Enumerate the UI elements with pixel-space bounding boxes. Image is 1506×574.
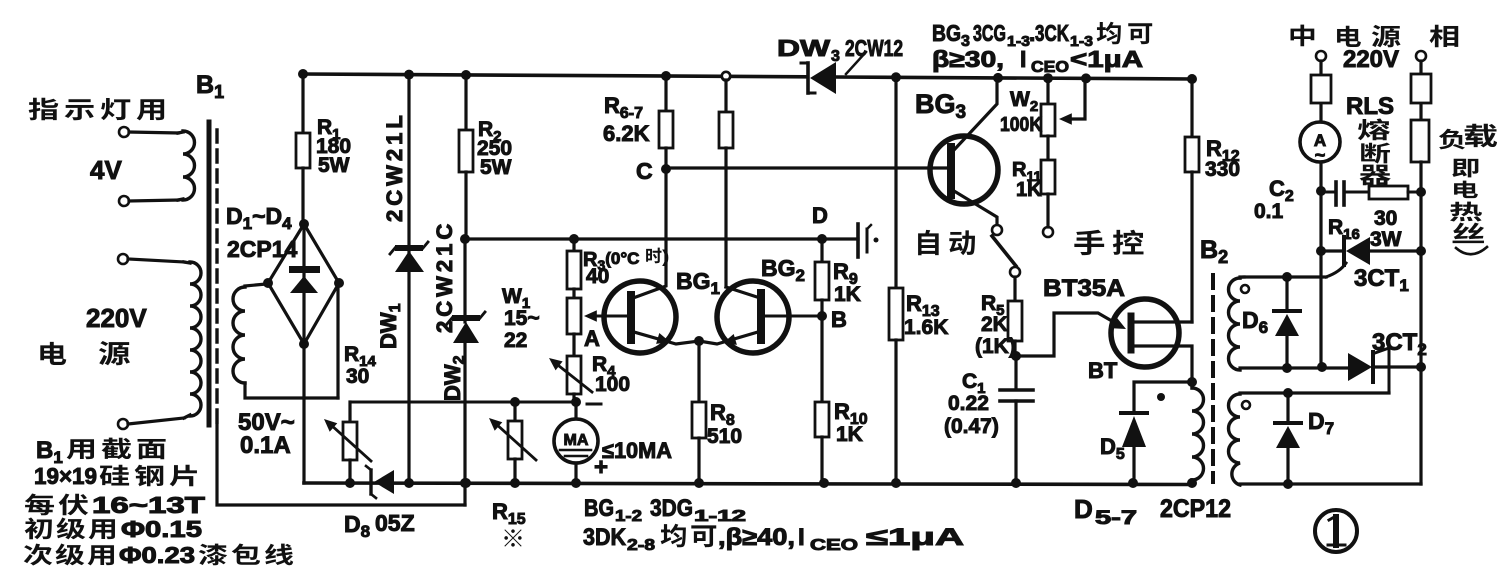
node bridge left xyxy=(263,278,273,288)
svg-text:C: C xyxy=(636,158,653,184)
wire BT cathode xyxy=(1133,346,1192,382)
svg-text:100K: 100K xyxy=(1000,114,1042,136)
label 负载即电热丝 xyxy=(1439,129,1465,150)
svg-text:BT: BT xyxy=(1088,358,1118,383)
label 相 xyxy=(1430,25,1459,48)
svg-text:2CP12: 2CP12 xyxy=(1160,495,1231,523)
svg-text:30: 30 xyxy=(346,365,369,388)
core B1 (dashed) xyxy=(215,130,218,425)
svg-text:Φ0.23: Φ0.23 xyxy=(119,542,195,568)
junction xyxy=(1316,186,1326,196)
switch pole xyxy=(1010,267,1020,277)
svg-text:0.22: 0.22 xyxy=(948,392,989,415)
gate 3CT2 xyxy=(1375,348,1389,353)
label 自动 xyxy=(918,230,939,255)
junction xyxy=(1011,478,1021,488)
svg-text:<1μA: <1μA xyxy=(1070,46,1143,72)
svg-text:3CG: 3CG xyxy=(973,20,1006,46)
svg-text:≤10MA: ≤10MA xyxy=(602,438,672,463)
junction xyxy=(298,69,308,79)
svg-text:30: 30 xyxy=(1374,207,1397,230)
terminal 4V winding bottom xyxy=(119,196,129,206)
wire BG1 emitter xyxy=(634,332,699,344)
wire sec1 bottom xyxy=(1240,366,1348,369)
wire BG2 emitter xyxy=(699,332,758,344)
diode D7 xyxy=(1286,393,1289,423)
svg-text:330: 330 xyxy=(1205,158,1240,181)
svg-text:RLS: RLS xyxy=(1346,93,1394,120)
svg-text:(1K): (1K) xyxy=(975,335,1016,358)
node C xyxy=(661,164,671,174)
minus mark xyxy=(587,403,601,406)
label 手控 xyxy=(1074,230,1104,255)
svg-text:6.2K: 6.2K xyxy=(603,121,650,146)
junction xyxy=(510,397,520,407)
svg-text:2CW21C: 2CW21C xyxy=(432,220,457,333)
resistor R14 (variable) xyxy=(348,402,351,422)
meter MA xyxy=(574,402,577,419)
thyristor 3CT1 xyxy=(1321,249,1344,252)
junction xyxy=(993,73,1003,83)
junction xyxy=(1043,73,1053,83)
junction xyxy=(510,478,520,488)
resistor R6 xyxy=(664,76,667,111)
junction xyxy=(1283,388,1293,398)
wire to BT gate xyxy=(1016,313,1117,356)
junction xyxy=(1316,246,1326,256)
svg-text:1-2: 1-2 xyxy=(615,508,642,525)
winding B1 220V primary xyxy=(190,262,201,416)
wiper W2 xyxy=(1072,76,1085,119)
node bridge top xyxy=(299,219,309,229)
junction xyxy=(345,478,355,488)
terminal 220V winding bottom xyxy=(118,419,128,429)
zener DW1 xyxy=(407,76,410,483)
leader line xyxy=(846,52,866,74)
winding B2 primary xyxy=(1190,382,1193,388)
thyristor 3CT2 xyxy=(1348,353,1372,381)
junction xyxy=(1416,362,1426,372)
wire sec2 bottom xyxy=(1240,482,1421,485)
wire return line y505 xyxy=(217,425,465,505)
svg-text:5W: 5W xyxy=(480,156,512,179)
core B2 (dashed) xyxy=(1211,275,1215,482)
svg-text:22: 22 xyxy=(504,329,527,352)
junction node R2/DW2 xyxy=(460,234,470,244)
svg-text:100: 100 xyxy=(595,373,630,396)
polarity dot sec2 xyxy=(1242,401,1250,409)
resistor R16 30 3W xyxy=(1344,191,1369,194)
node bridge right xyxy=(334,278,344,288)
svg-text:2CW12: 2CW12 xyxy=(845,35,903,61)
svg-text:220V: 220V xyxy=(1343,46,1399,73)
resistor R2 xyxy=(464,76,467,130)
svg-text:3: 3 xyxy=(831,48,840,65)
svg-text:(0.47): (0.47) xyxy=(944,415,999,438)
label 电源 (mains) xyxy=(40,342,66,365)
svg-text:3DG: 3DG xyxy=(650,495,693,522)
svg-text:MA: MA xyxy=(564,432,589,449)
resistor R11 xyxy=(1041,160,1055,194)
capacitor C1 xyxy=(1014,356,1017,388)
svg-text:0.1A: 0.1A xyxy=(240,432,291,459)
svg-text:1-12: 1-12 xyxy=(694,508,746,525)
capacitor at D xyxy=(856,224,860,257)
junction xyxy=(569,234,579,244)
svg-text:CEO: CEO xyxy=(810,537,858,554)
wire xyxy=(336,285,339,398)
svg-text:0.1: 0.1 xyxy=(1254,200,1284,223)
wire C line xyxy=(666,166,949,169)
wiper arrow W1 / node A xyxy=(596,315,627,318)
winding B2 secondary 1 xyxy=(1229,278,1241,370)
svg-text:5-7: 5-7 xyxy=(1095,508,1137,529)
wire xyxy=(129,200,178,201)
junction xyxy=(1187,478,1197,488)
svg-text:1.6K: 1.6K xyxy=(904,316,948,339)
wire xyxy=(245,383,338,398)
fuse RLS left xyxy=(1319,61,1322,122)
svg-text:15~: 15~ xyxy=(504,307,540,330)
gate 3CT1 xyxy=(1326,263,1346,277)
junction xyxy=(1282,363,1292,373)
wire xyxy=(128,418,184,424)
svg-text:1K: 1K xyxy=(836,423,863,446)
junction xyxy=(891,478,901,488)
transistor BG3 xyxy=(930,136,998,204)
terminal neutral xyxy=(1316,51,1326,61)
label 中 xyxy=(1291,25,1315,47)
label 电源 xyxy=(1337,26,1361,47)
resistor R3 (thermistor) xyxy=(572,239,575,251)
svg-text:3CK: 3CK xyxy=(1035,20,1069,46)
resistor R4 (variable) xyxy=(567,356,581,394)
transistor BG1 xyxy=(604,281,676,353)
junction xyxy=(1283,479,1293,489)
junction xyxy=(1416,187,1426,197)
wire bridge output down xyxy=(302,344,305,483)
svg-text:B: B xyxy=(831,307,847,332)
wire D reference line xyxy=(465,237,858,240)
winding B1 50V secondary xyxy=(233,287,245,383)
diode D5 xyxy=(1134,382,1192,413)
capacitor C2 xyxy=(1321,191,1336,194)
svg-text:3DK: 3DK xyxy=(583,524,627,551)
resistor R13 xyxy=(894,76,897,288)
junction xyxy=(661,71,671,81)
svg-text:,β≥40,: ,β≥40, xyxy=(718,524,795,551)
resistor R5 xyxy=(1013,277,1016,301)
switch contact auto xyxy=(992,225,1002,235)
svg-text:D: D xyxy=(812,203,828,228)
core B1 (solid bar) xyxy=(207,122,212,425)
wire BG1 collector xyxy=(636,169,666,297)
junction xyxy=(819,478,829,488)
wire xyxy=(129,132,178,133)
junction emitters xyxy=(694,336,704,346)
junction xyxy=(460,478,470,488)
terminal 220V winding top xyxy=(118,254,128,264)
svg-text:2CW21L: 2CW21L xyxy=(382,111,407,222)
wire top supply bus xyxy=(303,74,805,77)
zener D8 on bus xyxy=(369,470,372,494)
svg-text:1K: 1K xyxy=(1016,179,1042,201)
svg-text:5W: 5W xyxy=(318,154,350,177)
svg-text:D: D xyxy=(1074,494,1093,524)
resistor R12 xyxy=(1190,76,1193,137)
wire neutral line xyxy=(1319,162,1322,367)
thyristor BT xyxy=(1111,299,1179,367)
wire BG2 base to B xyxy=(765,315,822,318)
junction xyxy=(571,478,581,488)
junction xyxy=(1317,362,1327,372)
switch contact manual xyxy=(1043,227,1053,237)
junction xyxy=(571,397,581,407)
svg-text:2CP14: 2CP14 xyxy=(227,236,298,262)
svg-text:220V: 220V xyxy=(86,303,147,333)
svg-text:I: I xyxy=(1020,46,1026,72)
svg-text:2-8: 2-8 xyxy=(627,537,655,554)
junction xyxy=(404,478,414,488)
junction xyxy=(1282,272,1292,282)
svg-text:2K: 2K xyxy=(981,313,1008,336)
svg-text:3W: 3W xyxy=(1370,228,1402,251)
svg-text:CEO: CEO xyxy=(1031,59,1069,76)
fuse RLS right xyxy=(1419,61,1422,120)
svg-text:16~13T: 16~13T xyxy=(92,492,205,518)
wire node line y402 xyxy=(350,401,576,404)
junction xyxy=(1187,377,1197,387)
diode D6 xyxy=(1285,277,1288,311)
wire sec1 top xyxy=(1240,277,1244,278)
resistor R9 xyxy=(820,239,823,262)
svg-text:A: A xyxy=(584,326,600,351)
winding B1 4V xyxy=(183,131,195,200)
node bridge bottom xyxy=(299,339,309,349)
resistor R15 (variable) xyxy=(513,402,516,421)
junction xyxy=(1128,478,1138,488)
svg-text:BG: BG xyxy=(584,495,614,522)
svg-text:40: 40 xyxy=(586,265,609,288)
svg-text:BG: BG xyxy=(932,20,961,46)
wire sec2 top xyxy=(1240,391,1389,394)
node D xyxy=(817,234,827,244)
svg-text:1-3: 1-3 xyxy=(1007,33,1030,50)
terminal phase xyxy=(1416,51,1426,61)
resistor R7 xyxy=(722,72,730,80)
junction xyxy=(694,478,704,488)
junction xyxy=(1416,246,1426,256)
svg-text:05Z: 05Z xyxy=(375,510,415,536)
svg-text:1K: 1K xyxy=(834,283,861,306)
zener DW2 xyxy=(463,239,466,322)
junction xyxy=(891,72,901,82)
svg-text:≤1μA: ≤1μA xyxy=(866,524,964,551)
potentiometer W2 xyxy=(1046,76,1049,104)
junction xyxy=(461,478,471,488)
svg-text:β≥30,: β≥30, xyxy=(932,46,1004,72)
resistor R8 xyxy=(697,341,700,402)
wire BT anode xyxy=(1133,320,1192,323)
junction xyxy=(1081,73,1091,83)
transistor BG2 xyxy=(717,281,789,353)
node B xyxy=(817,311,827,321)
wire xyxy=(245,284,266,286)
load resistor (heater) xyxy=(1411,120,1429,162)
svg-text:510: 510 xyxy=(707,425,742,448)
wire bridge center xyxy=(302,224,305,344)
potentiometer W1 xyxy=(572,289,575,298)
junction xyxy=(1187,74,1197,84)
terminal 4V winding top xyxy=(119,127,129,137)
svg-text:19×19: 19×19 xyxy=(34,463,97,489)
polarity dot sec1 xyxy=(1241,285,1249,293)
junction gate node xyxy=(1011,351,1021,361)
figure number 1 xyxy=(1315,510,1357,552)
svg-text:I: I xyxy=(798,524,805,551)
label 指示灯用 (indicator lamp winding) xyxy=(29,98,59,121)
resistor R1 xyxy=(301,76,304,133)
polarity dot B2 primary xyxy=(1157,393,1165,401)
svg-text:4V: 4V xyxy=(90,155,122,185)
wire xyxy=(128,259,184,262)
wire BG2 collector xyxy=(726,287,757,297)
diode symbol inside bridge xyxy=(289,266,320,273)
resistor R10 xyxy=(820,316,823,402)
bridge rectifier D1-D4 diamond xyxy=(268,224,339,344)
zener DW3 on bus xyxy=(806,63,810,93)
wire bottom bus xyxy=(304,483,1192,485)
junction (hollow) xyxy=(722,72,730,80)
svg-text:DW: DW xyxy=(777,35,830,61)
svg-text:Φ0.15: Φ0.15 xyxy=(121,516,202,542)
wire BG3 collector xyxy=(954,76,997,150)
ammeter A xyxy=(1300,122,1340,162)
winding B2 secondary 2 xyxy=(1229,394,1241,485)
junction xyxy=(404,70,414,80)
junction xyxy=(461,70,471,80)
svg-text:BT35A: BT35A xyxy=(1043,275,1125,302)
wire BG3 emitter xyxy=(954,191,997,225)
switch blade xyxy=(992,236,1016,266)
